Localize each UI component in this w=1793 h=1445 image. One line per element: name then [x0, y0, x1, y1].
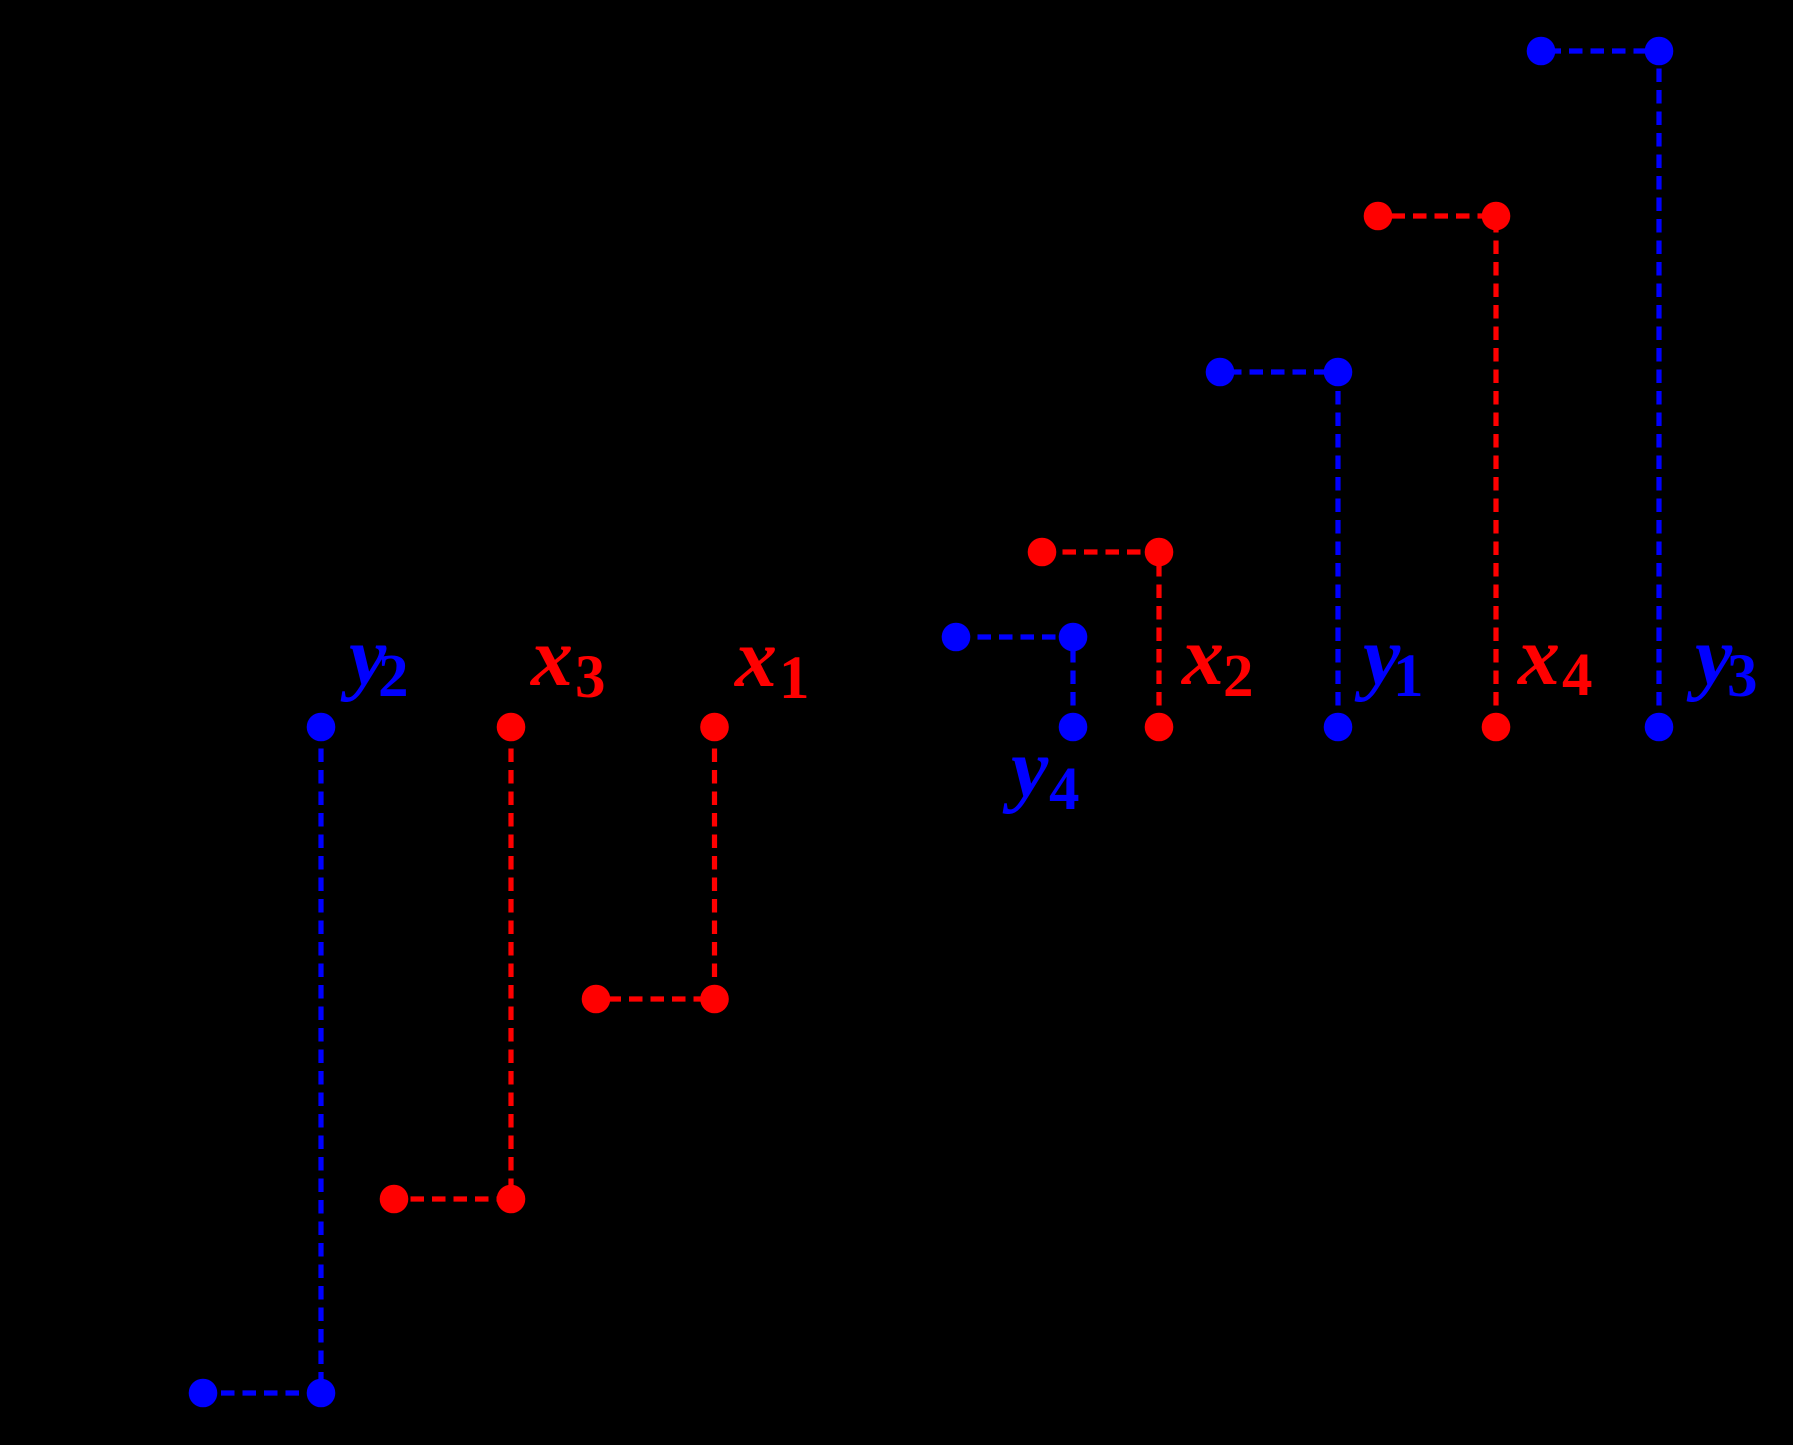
svg-text:4: 4	[1562, 642, 1593, 709]
point x3 axis	[497, 713, 526, 742]
svg-text:1: 1	[779, 645, 810, 712]
svg-text:x: x	[1180, 610, 1224, 703]
point y1 end	[1206, 358, 1235, 387]
svg-text:2: 2	[1223, 643, 1254, 710]
point x1 axis	[700, 713, 729, 742]
svg-text:x: x	[529, 611, 573, 704]
svg-text:x: x	[1516, 610, 1560, 703]
point x2 end	[1028, 538, 1057, 567]
svg-text:3: 3	[1727, 643, 1758, 710]
point x2 corner	[1145, 538, 1174, 567]
label y4	[1002, 722, 1080, 823]
svg-text:2: 2	[378, 643, 409, 710]
hook x4 wire	[1378, 216, 1496, 727]
point y3 axis	[1645, 713, 1674, 742]
point y2 end	[189, 1379, 218, 1408]
label x1	[733, 612, 810, 712]
point x4 corner	[1482, 202, 1511, 231]
label x4	[1516, 610, 1593, 709]
point y4 end	[942, 623, 971, 652]
hook x3 wire	[394, 727, 511, 1199]
label y3	[1686, 610, 1758, 710]
hook y4 wire	[956, 637, 1073, 727]
svg-text:4: 4	[1049, 756, 1080, 823]
point x4 axis	[1482, 713, 1511, 742]
point y4 axis	[1059, 713, 1088, 742]
point y3 end	[1527, 37, 1556, 66]
svg-text:1: 1	[1393, 643, 1424, 710]
point x2 axis	[1145, 713, 1174, 742]
svg-text:3: 3	[575, 644, 606, 711]
svg-text:x: x	[733, 612, 777, 705]
point x1 corner	[700, 985, 729, 1014]
point y2 axis	[307, 713, 336, 742]
point x1 end	[582, 985, 611, 1014]
label y1	[1354, 610, 1424, 710]
point y3 corner	[1645, 37, 1674, 66]
hook y1 wire	[1220, 372, 1338, 727]
point y1 corner	[1324, 358, 1353, 387]
point y2 corner	[307, 1379, 336, 1408]
hook y2 wire	[203, 727, 321, 1393]
label x3	[529, 611, 606, 711]
point x3 corner	[497, 1185, 526, 1214]
label x2	[1180, 610, 1254, 710]
hook x1 wire	[596, 727, 715, 999]
hook y3 wire	[1541, 51, 1659, 727]
point x4 end	[1364, 202, 1393, 231]
point y4 corner	[1059, 623, 1088, 652]
point y1 axis	[1324, 713, 1353, 742]
label y2	[340, 610, 409, 710]
point x3 end	[380, 1185, 409, 1214]
hook x2 wire	[1042, 552, 1159, 727]
